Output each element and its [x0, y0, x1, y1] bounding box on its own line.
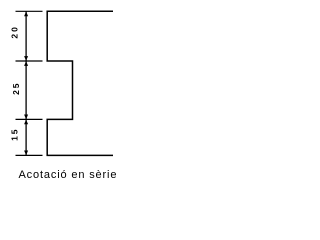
svg-text:20: 20 — [10, 25, 20, 38]
witness line t2 (y=61) — [16, 60, 43, 62]
arrowhead up at t3 — [24, 120, 28, 125]
witness line t1 (top, y=11) — [16, 10, 43, 12]
dimension line vertical — [25, 11, 27, 155]
part profile outline (stepped block with notch) — [47, 11, 113, 155]
svg-text:15: 15 — [10, 127, 20, 140]
arrowhead down at t4 — [24, 151, 28, 156]
svg-text:25: 25 — [11, 81, 21, 94]
svg-text:Acotació en sèrie: Acotació en sèrie — [18, 169, 117, 181]
arrowhead down at t2 — [24, 56, 28, 61]
arrowhead up at t2 — [24, 61, 28, 66]
witness line t4 (bottom, y=155) — [16, 154, 43, 156]
arrowhead up at t1 — [24, 12, 28, 17]
witness line t3 (y=119) — [16, 118, 43, 120]
arrowhead down at t3 — [24, 115, 28, 120]
